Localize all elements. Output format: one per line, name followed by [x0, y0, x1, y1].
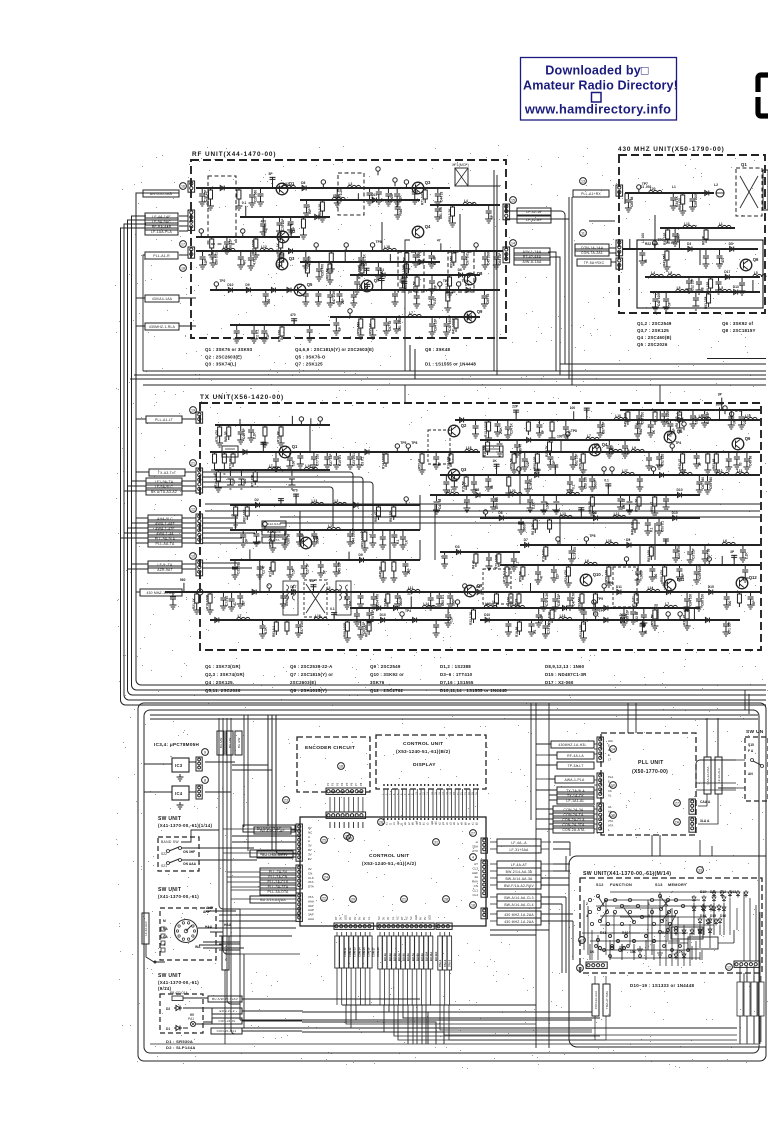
ground G38 — [428, 302, 435, 309]
capacitor C94 — [433, 452, 439, 462]
wire TX top link — [404, 385, 406, 403]
svg-text:SW UNIT(X41-1370-00,-61)(M/14): SW UNIT(X41-1370-00,-61)(M/14) — [583, 871, 671, 877]
svg-text:8: 8 — [204, 779, 206, 783]
switch S21 — [161, 859, 182, 869]
wire TX ctl fan D — [202, 487, 333, 525]
ground G157 — [399, 542, 406, 549]
ground G176 — [552, 604, 559, 611]
ground G81 — [739, 288, 746, 295]
capacitor C83 — [648, 420, 654, 430]
ground G90 — [549, 435, 556, 442]
resistor R1 — [210, 188, 212, 190]
diode D34 — [615, 590, 623, 595]
svg-text:D3: D3 — [593, 511, 597, 515]
capacitor C96 — [547, 452, 553, 462]
ground G11 — [411, 197, 418, 204]
svg-text:5V: 5V — [308, 857, 312, 861]
svg-text:Q10 : 3SK92 or: Q10 : 3SK92 or — [370, 672, 404, 677]
svg-text:C37 2.2K: C37 2.2K — [300, 620, 304, 634]
connector ref 10 — [610, 782, 617, 789]
resistor R29 — [710, 277, 712, 279]
wire RF PLL stub — [143, 254, 188, 256]
svg-text:R83 100: R83 100 — [647, 550, 651, 562]
svg-text:L12: L12 — [680, 469, 686, 473]
capacitor C138 — [578, 507, 584, 513]
ground G89 — [536, 430, 543, 437]
svg-text:C97 33: C97 33 — [388, 320, 392, 331]
svg-text:3ΑP: 3ΑP — [308, 913, 314, 917]
test point TP21 — [670, 444, 674, 452]
test point TP30 — [602, 584, 606, 592]
ground G92 — [597, 430, 604, 437]
capacitor C22 — [482, 251, 488, 262]
svg-text:470: 470 — [721, 257, 725, 263]
svg-text:100: 100 — [291, 460, 295, 466]
capacitor C101 — [726, 452, 732, 464]
ground G213 — [687, 557, 694, 564]
connector ref 4 — [470, 854, 477, 861]
ground G178 — [578, 607, 585, 614]
svg-text:430MHZ-1-RLΑ: 430MHZ-1-RLΑ — [149, 325, 176, 329]
svg-text:100: 100 — [557, 434, 563, 438]
svg-text:L8: L8 — [668, 271, 672, 275]
capacitor C91 — [333, 452, 339, 462]
svg-text:L14: L14 — [648, 586, 654, 590]
wire stub N55 — [529, 583, 531, 592]
capacitor C131 — [311, 530, 317, 539]
svg-text:L11: L11 — [408, 586, 414, 590]
svg-text:ΑΑP: ΑΑP — [308, 908, 314, 912]
inductor L28 — [509, 492, 522, 495]
svg-text:TP8: TP8 — [376, 240, 382, 244]
test point TP15 — [637, 185, 641, 193]
connector J5 RF mix out — [503, 247, 510, 263]
svg-text:18: 18 — [471, 904, 475, 908]
wire RF interlinks — [382, 186, 500, 251]
ground G71 — [679, 208, 686, 215]
svg-text:R2 4.7K: R2 4.7K — [545, 445, 549, 457]
transistor Q3 — [276, 256, 295, 270]
resistor R16 — [306, 262, 308, 264]
wire PLL vert up — [707, 718, 718, 757]
capacitor C195 — [402, 560, 408, 569]
ground G13 — [208, 252, 215, 259]
svg-text:D3: D3 — [455, 545, 459, 549]
ground G134 — [704, 487, 711, 494]
svg-text:D10: D10 — [227, 283, 233, 287]
svg-text:L3: L3 — [334, 499, 338, 503]
svg-text:D6: D6 — [476, 585, 480, 589]
svg-text:68: 68 — [644, 630, 648, 634]
svg-text:3P: 3P — [718, 393, 723, 397]
signal label AWB-PLB — [555, 776, 594, 783]
bottom section outer frame — [138, 703, 766, 1061]
capacitor C31 — [379, 277, 385, 283]
capacitor C198 — [511, 552, 517, 564]
wire bus to RF labels — [121, 216, 146, 228]
svg-text:100: 100 — [728, 600, 732, 606]
svg-text:BK A/TΑ-Α3-Α2: BK A/TΑ-Α3-Α2 — [151, 490, 177, 494]
connector ref 12 — [726, 964, 733, 971]
signal label AWB3 — [148, 530, 182, 537]
diode D46 — [625, 543, 633, 548]
ground G21 — [302, 263, 309, 270]
wire stub N17 — [389, 254, 391, 262]
svg-text:25: 25 — [322, 839, 326, 843]
connector ref 27 — [470, 830, 477, 837]
ground G235 — [535, 620, 542, 627]
svg-text:1000P: 1000P — [640, 569, 644, 579]
wire stub N53 — [183, 583, 185, 592]
svg-text:D16: D16 — [720, 914, 726, 918]
ground G18 — [209, 260, 216, 267]
svg-text:LED: LED — [428, 915, 432, 920]
connector ref 25 — [321, 837, 328, 844]
svg-text:Α: Α — [308, 839, 310, 843]
430 filter box edge — [763, 170, 768, 210]
ground G97 — [221, 467, 228, 474]
svg-text:ANT/DU-1ΑΑ: ANT/DU-1ΑΑ — [150, 192, 173, 196]
wire M14 drops — [562, 897, 573, 973]
svg-text:S15: S15 — [748, 743, 754, 747]
wire stub N20 — [357, 193, 359, 200]
capacitor C216 — [731, 554, 737, 560]
svg-text:430/Α4-1ΑΑ: 430/Α4-1ΑΑ — [152, 297, 173, 301]
svg-text:PLΑ: PLΑ — [608, 775, 613, 779]
svg-text:9V: 9V — [418, 917, 422, 920]
capacitor C26 — [315, 290, 321, 299]
connector PLL SLB — [689, 817, 695, 832]
ground G40 — [481, 301, 488, 308]
resistor R93 — [686, 608, 688, 610]
ground G170 — [370, 602, 377, 609]
svg-text:4: 4 — [472, 856, 474, 860]
ground G198 — [261, 440, 268, 447]
display lower pin numbers — [382, 792, 478, 795]
ground G186 — [344, 635, 351, 642]
wire S21 out — [181, 859, 257, 861]
svg-text:D17: D17 — [371, 193, 377, 197]
svg-text:L5: L5 — [677, 286, 681, 290]
svg-text:D10: D10 — [380, 613, 386, 617]
svg-text:RΑV: RΑV — [472, 880, 478, 884]
resistor R76 — [627, 410, 629, 412]
ground G244 — [550, 575, 557, 582]
ground G77 — [716, 261, 723, 268]
wire stub N28 — [629, 239, 631, 249]
ground G232 — [353, 619, 360, 626]
wire M14 extra drops — [584, 900, 700, 960]
capacitor C204 — [445, 608, 451, 620]
transistor Q1 — [279, 444, 298, 458]
test point TP7 — [370, 243, 374, 251]
svg-text:Q3 : 3SK74(L): Q3 : 3SK74(L) — [205, 362, 237, 367]
wire sw3 internal — [183, 998, 212, 1028]
svg-text:Q5: Q5 — [307, 282, 313, 287]
resistor R46 — [465, 475, 467, 477]
test point TP33 — [666, 612, 670, 620]
wire S15 to PLL — [696, 760, 736, 783]
capacitor C48 — [486, 205, 492, 216]
svg-text:ENCODER CIRCUIT: ENCODER CIRCUIT — [305, 745, 355, 751]
inductor L45 — [484, 605, 497, 608]
ground G75 — [663, 264, 670, 271]
ground G149 — [281, 542, 288, 549]
capacitor C46 — [375, 262, 381, 273]
svg-text:15P: 15P — [611, 447, 615, 454]
svg-text:Q2: Q2 — [461, 423, 467, 428]
svg-text:18: 18 — [446, 792, 449, 795]
test point TP39 — [584, 537, 588, 545]
ground G212 — [672, 555, 679, 562]
wire RF 430 stubs — [136, 298, 196, 326]
capacitor C82 — [635, 420, 641, 431]
signal label CON-2B-3TB — [553, 821, 594, 828]
ground G121 — [733, 462, 740, 469]
ground G64 — [446, 290, 453, 297]
ground G120 — [725, 464, 732, 471]
connector ref 16 — [338, 763, 345, 770]
capacitor C11 — [435, 188, 441, 199]
wire row N61 — [215, 424, 330, 426]
wire stub N59 — [657, 609, 659, 620]
svg-text:P5: P5 — [345, 782, 349, 786]
RF unit boundary — [191, 160, 506, 338]
ground G234 — [445, 620, 452, 627]
capacitor C5 — [334, 188, 340, 200]
svg-text:e1: e1 — [386, 822, 389, 825]
svg-text:3V: 3V — [382, 917, 386, 920]
connector A2 bottom 1 — [334, 923, 374, 929]
ground G31 — [302, 299, 309, 306]
diode D29 — [592, 516, 600, 521]
ground G206 — [738, 422, 745, 429]
signal label PLL-7B — [260, 868, 296, 875]
svg-text:12: 12 — [191, 508, 195, 512]
test point TP1 — [321, 180, 325, 188]
wire stub N40 — [262, 442, 264, 452]
svg-text:C42 100P: C42 100P — [657, 291, 661, 306]
resistor R30 — [708, 292, 710, 294]
wire stub N75 — [410, 596, 412, 608]
inductor L37 — [314, 617, 327, 620]
svg-text:LF-3Α-ΑLΑ: LF-3Α-ΑLΑ — [717, 768, 721, 783]
svg-text:PB 470 Ω1Α: PB 470 Ω1Α — [170, 991, 188, 995]
svg-text:R32 2.2K: R32 2.2K — [469, 611, 473, 625]
svg-text:C86 68: C86 68 — [286, 533, 290, 544]
diode D50 — [392, 606, 400, 611]
connector PLL 2 — [597, 773, 603, 798]
svg-text:R63 68: R63 68 — [712, 458, 716, 469]
svg-text:D6: D6 — [458, 268, 462, 272]
ground G1 — [199, 199, 206, 206]
ground G111 — [547, 462, 554, 469]
ground G147 — [253, 539, 260, 546]
svg-text:C19 0.1: C19 0.1 — [338, 455, 342, 466]
svg-text:CL: CL — [391, 916, 395, 920]
wire stub N16 — [344, 250, 346, 262]
svg-text:S22: S22 — [161, 852, 167, 856]
svg-text:C93 100: C93 100 — [641, 412, 645, 424]
signal label LF-42 — [517, 208, 551, 215]
resistor R87 — [498, 552, 500, 554]
svg-text:BW-2/14-ΑΑ-3Α: BW-2/14-ΑΑ-3Α — [506, 870, 533, 874]
ground G210 — [622, 451, 629, 458]
ground G14 — [223, 247, 230, 254]
wire stub N70 — [249, 549, 251, 560]
wire RF out A — [553, 211, 565, 364]
svg-text:ON 3HF: ON 3HF — [183, 850, 195, 854]
resistor R36 — [232, 452, 234, 454]
ground G208 — [514, 450, 521, 457]
ground G51 — [300, 232, 307, 239]
resistor R68 — [346, 620, 348, 622]
ground G138 — [527, 505, 534, 512]
inductor L11 — [718, 225, 731, 228]
SW unit 1/14 boundary — [158, 837, 199, 871]
svg-text:C32 33: C32 33 — [236, 563, 240, 574]
capacitor C166 — [505, 620, 511, 629]
wire ic out links — [232, 765, 272, 770]
wire 430 label drop A — [568, 197, 570, 379]
diode D40 — [483, 618, 491, 623]
svg-text:L13: L13 — [312, 499, 318, 503]
svg-text:R13 1000P: R13 1000P — [484, 420, 488, 437]
svg-text:1: 1 — [608, 828, 610, 832]
connector M14 left — [586, 962, 607, 968]
test point TP28 — [267, 584, 271, 592]
svg-text:L13: L13 — [560, 614, 566, 618]
wire stub N32 — [752, 280, 754, 292]
signal label 430 2BB2 — [497, 918, 541, 925]
wire M14 routing rows — [590, 892, 740, 958]
svg-text:LF-4Α-ΑT: LF-4Α-ΑT — [511, 863, 527, 867]
capacitor C121 — [541, 495, 547, 507]
connector A2 right 1 — [481, 838, 487, 853]
connector ref 17 — [180, 241, 187, 248]
inductor L9 — [649, 190, 662, 193]
capacitor C185 — [673, 545, 679, 555]
svg-text:1K: 1K — [590, 950, 595, 954]
svg-text:Q9: Q9 — [477, 309, 483, 314]
signal label PLL-2B — [260, 873, 296, 880]
transistor Q1 — [276, 181, 295, 195]
ground G216 — [231, 572, 238, 579]
wire row N48 — [230, 529, 420, 531]
signal label TP-5B — [577, 259, 611, 266]
ground G63 — [429, 286, 436, 293]
wire row N3 — [196, 236, 300, 238]
svg-text:4.7K: 4.7K — [676, 950, 684, 954]
ground G205 — [728, 422, 735, 429]
svg-text:3P: 3P — [434, 284, 438, 289]
diode D23 — [363, 450, 371, 455]
resistor R20 — [452, 205, 454, 207]
inductor L38 — [559, 617, 572, 620]
svg-text:D8,9,12,13 : 1N60: D8,9,12,13 : 1N60 — [545, 664, 585, 669]
svg-text:C71 47: C71 47 — [225, 595, 229, 606]
capacitor C111 — [567, 475, 573, 487]
svg-text:L15: L15 — [745, 414, 751, 418]
capacitor C137 — [518, 518, 524, 527]
svg-text:Q4 : 2SC460(B): Q4 : 2SC460(B) — [637, 335, 672, 340]
wire stub N57 — [333, 612, 335, 620]
transistor Q2 — [277, 229, 296, 243]
ground G165 — [228, 604, 235, 611]
test point TP34 — [678, 612, 682, 620]
capacitor C4 — [270, 176, 276, 182]
svg-text:L14: L14 — [423, 602, 429, 606]
svg-text:TP-3Α-LT: TP-3Α-LT — [567, 764, 583, 768]
svg-text:P8: P8 — [359, 782, 363, 786]
svg-text:3V: 3V — [308, 844, 312, 848]
resistor R90 — [473, 608, 475, 610]
capacitor C71 — [652, 292, 658, 304]
capacitor C69 — [716, 277, 722, 287]
capacitor C112 — [579, 475, 585, 484]
capacitor C127 — [240, 530, 246, 540]
switch S15 — [751, 759, 764, 768]
connector J9 TX pll — [196, 412, 203, 423]
ground G239 — [640, 620, 647, 627]
wire TX vert links — [260, 530, 420, 592]
svg-text:L17: L17 — [447, 489, 453, 493]
svg-text:ΑHF: ΑHF — [472, 871, 478, 875]
svg-text:22: 22 — [322, 897, 326, 901]
svg-text:R56 5P: R56 5P — [650, 613, 654, 625]
svg-text:LF-42-1P: LF-42-1P — [526, 210, 542, 214]
connector ref 16 — [180, 183, 187, 190]
svg-text:C70 560: C70 560 — [495, 497, 499, 509]
svg-text:560: 560 — [359, 283, 363, 289]
svg-text:C9 5P: C9 5P — [433, 255, 437, 265]
wire TX ctl fan A — [202, 472, 353, 530]
ground G240 — [651, 623, 658, 630]
test point TP13 — [376, 167, 380, 175]
svg-text:4.7K: 4.7K — [252, 258, 256, 265]
svg-text:22P: 22P — [743, 417, 747, 424]
ground G251 — [693, 577, 700, 584]
svg-text:R18 100P: R18 100P — [206, 594, 210, 609]
svg-text:9V: 9V — [362, 917, 366, 920]
svg-text:22P: 22P — [341, 297, 345, 304]
svg-text:TP4: TP4 — [405, 609, 411, 613]
capacitor C77 — [513, 409, 519, 415]
ground G39 — [444, 305, 451, 312]
capacitor C66 — [717, 249, 723, 261]
svg-text:15P: 15P — [672, 427, 676, 434]
svg-text:R92 560: R92 560 — [449, 256, 453, 268]
svg-text:20: 20 — [453, 792, 456, 795]
connector A2 left 2 — [296, 865, 302, 889]
ground G95 — [667, 429, 674, 436]
svg-text:R41: R41 — [600, 931, 606, 935]
capacitor C194 — [333, 560, 339, 569]
wire M14 sub box links — [668, 930, 734, 943]
signal label BU A/W 77 — [243, 825, 295, 832]
wire A2 right links 2 — [541, 842, 553, 921]
svg-text:R18 5P: R18 5P — [483, 445, 487, 457]
TX filter HB1 — [483, 569, 511, 604]
test point TP6 — [344, 243, 348, 251]
ground G83 — [663, 304, 670, 311]
svg-text:D10~19 : 1S1333 or 1N4448: D10~19 : 1S1333 or 1N4448 — [630, 983, 695, 988]
ground G94 — [647, 430, 654, 437]
svg-text:100: 100 — [654, 573, 658, 579]
bus wire ANT to bottom — [136, 193, 766, 685]
A2 top interior pin labels — [382, 820, 478, 825]
ground G72 — [689, 204, 696, 211]
